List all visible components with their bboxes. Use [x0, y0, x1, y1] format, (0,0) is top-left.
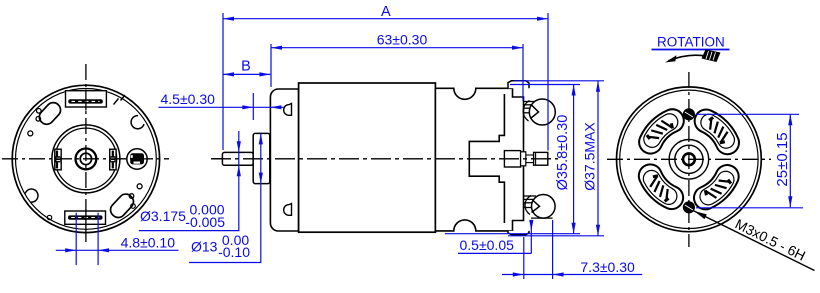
vent slot bottom-left	[639, 164, 683, 209]
dimension 0.5	[530, 224, 532, 253]
right view centerlines	[607, 158, 771, 160]
svg-text:4.5±0.30: 4.5±0.30	[161, 91, 216, 107]
bottom terminal underline	[531, 217, 553, 219]
svg-text:4.8±0.10: 4.8±0.10	[121, 234, 176, 250]
right brush holder	[110, 149, 116, 170]
rear bearing boss	[504, 151, 520, 167]
M3 leader arrow	[694, 211, 815, 271]
left view centerlines	[2, 158, 169, 160]
left cap top vent	[284, 104, 292, 116]
centerline through slots	[85, 90, 87, 111]
dimension dia 35.8	[510, 84, 580, 86]
left view inner rim ring	[16, 88, 157, 229]
svg-text:63±0.30: 63±0.30	[377, 31, 428, 47]
left view outer rim	[12, 85, 159, 232]
upper-right U notch	[131, 116, 144, 129]
right cap stepped recess	[469, 94, 504, 223]
svg-text:Ø37.5MAX: Ø37.5MAX	[582, 122, 598, 191]
left view bearing boss outer circle	[52, 125, 120, 193]
right view outer rim	[617, 87, 762, 232]
rim tick marks 2 oclock	[114, 99, 119, 105]
svg-text:Ø3.175: Ø3.175	[140, 208, 186, 224]
dimension 63	[270, 44, 272, 87]
bottom terminal varistor disc	[532, 195, 556, 219]
oval bumps	[37, 109, 42, 114]
terminal circle	[127, 149, 147, 169]
bottom screw hole M3	[683, 201, 695, 213]
small hole lower-right	[137, 184, 142, 189]
left view shaft bushing outer	[76, 149, 97, 170]
right cap bottom lug bump	[508, 231, 529, 235]
left cap bottom vent	[284, 204, 292, 216]
right end cap outline	[435, 88, 523, 231]
svg-text:Ø13: Ø13	[191, 238, 218, 254]
small mark bottom-left rim	[47, 215, 51, 219]
oval bumps	[129, 194, 134, 199]
svg-text:B: B	[241, 58, 251, 74]
lower-left U notch	[25, 189, 38, 202]
rotation arrow hatched tail	[702, 50, 721, 63]
top vent slot bar	[68, 99, 103, 103]
top terminal varistor disc	[529, 99, 555, 125]
rear shaft stub	[534, 152, 548, 165]
dimension dia 37.5 MAX	[514, 80, 604, 82]
upper-left oval slot	[36, 100, 63, 127]
top vent slot rectangle	[66, 91, 107, 107]
svg-text:25±0.15: 25±0.15	[774, 132, 791, 186]
dimension dia 13	[260, 133, 262, 262]
collar (bushing)	[253, 133, 270, 183]
top terminal tab	[524, 101, 537, 103]
dimension 4.5	[252, 93, 254, 120]
svg-text:M3x0.5 - 6H: M3x0.5 - 6H	[733, 216, 808, 264]
shaft	[222, 152, 253, 165]
bottom terminal tab	[524, 195, 537, 197]
right cap top lug bump	[508, 81, 529, 89]
dimension B	[223, 73, 270, 75]
svg-text:-0.10: -0.10	[218, 244, 250, 260]
centerlines redrawn on top	[2, 158, 169, 160]
dimension 4.8	[75, 213, 77, 265]
motor can body	[299, 83, 436, 232]
left brush holder	[55, 149, 61, 170]
side view centerline	[211, 158, 558, 160]
vent slot top-right	[695, 110, 739, 155]
left view bearing boss inner circle	[55, 128, 117, 190]
dimension dia 3.175	[238, 131, 240, 231]
left end cap	[270, 89, 298, 231]
right view shaft hole	[683, 153, 695, 165]
svg-text:A: A	[381, 4, 391, 20]
svg-text:0.5±0.05: 0.5±0.05	[460, 237, 515, 253]
lower-right oval slot	[108, 191, 137, 220]
small hole upper-left	[28, 131, 33, 136]
right view inner rim ring	[620, 90, 758, 228]
left view shaft bushing inner	[80, 153, 91, 164]
svg-text:Ø35.8±0.30: Ø35.8±0.30	[555, 115, 571, 191]
dimension 25	[696, 113, 799, 115]
terminal blob	[130, 153, 144, 164]
dimension 7.3	[523, 237, 525, 279]
svg-text:ROTATION: ROTATION	[657, 35, 725, 50]
svg-text:7.3±0.30: 7.3±0.30	[580, 259, 635, 275]
vent slot bottom-right	[694, 165, 739, 209]
svg-text:-0.005: -0.005	[185, 214, 225, 230]
bottom vent slot bar	[68, 215, 103, 219]
right view boss circle outer	[669, 140, 709, 180]
right view boss circle inner	[675, 145, 703, 173]
vent slot top-left	[639, 109, 684, 153]
top screw hole M3	[683, 108, 695, 120]
bottom vent slot rectangle	[65, 211, 106, 224]
dimension A	[222, 13, 224, 150]
rotation curved arrow	[669, 55, 707, 61]
